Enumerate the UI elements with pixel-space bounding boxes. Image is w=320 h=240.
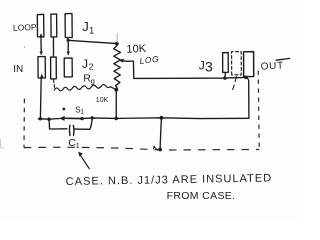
svg-text:3: 3 [205, 59, 213, 75]
svg-text:J: J [82, 57, 88, 71]
svg-text:IN: IN [13, 64, 23, 75]
svg-text:J: J [82, 19, 89, 34]
svg-text:J: J [199, 59, 205, 73]
svg-text:1: 1 [76, 141, 80, 150]
svg-text:g: g [91, 77, 95, 86]
svg-text:10K: 10K [96, 97, 109, 104]
svg-text:2: 2 [89, 62, 94, 72]
svg-text:OUT: OUT [260, 60, 284, 72]
svg-text:10K: 10K [126, 43, 147, 56]
svg-text:1: 1 [89, 25, 94, 36]
svg-text:LOOP: LOOP [13, 22, 37, 33]
svg-text:LOG: LOG [139, 54, 160, 66]
svg-text:1: 1 [80, 108, 84, 115]
svg-text:FROM CASE.: FROM CASE. [167, 190, 236, 202]
